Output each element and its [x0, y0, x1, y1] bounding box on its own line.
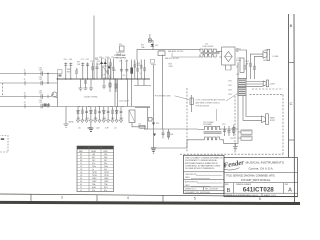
- svg-text:INSTRUMENTS AND IS SUBMITTED I: INSTRUMENTS AND IS SUBMITTED IN: [185, 162, 218, 165]
- title block bottom line: [224, 196, 298, 198]
- svg-text:2n2: 2n2: [104, 169, 107, 171]
- table column divider 2: [100, 146, 102, 192]
- sheet divider: [261, 193, 263, 197]
- svg-text:Corona, CA U.S.A.: Corona, CA U.S.A.: [249, 166, 274, 170]
- svg-text:R54: R54: [170, 134, 173, 136]
- svg-text:AND WIRE CONNECTION (J): AND WIRE CONNECTION (J): [196, 102, 221, 105]
- diode string x101.6: [100, 59, 103, 80]
- svg-text:F1: F1: [80, 184, 82, 186]
- svg-text:22u: 22u: [92, 190, 95, 192]
- svg-text:EI57: EI57: [104, 187, 108, 189]
- wire rail to terminal strip: [238, 132, 241, 138]
- svg-text:CN4: CN4: [228, 94, 232, 96]
- speaker SPKR2: [263, 80, 275, 87]
- svg-text:THIS DOCUMENT CONTAINS INFORMA: THIS DOCUMENT CONTAINS INFORMATION: [185, 157, 223, 160]
- wire vertical junction bus feed: [56, 74, 58, 107]
- svg-text:6: 6: [259, 197, 261, 201]
- svg-text:1N40: 1N40: [104, 178, 108, 180]
- small part x244.8: [244, 66, 246, 70]
- svg-text:1N53: 1N53: [104, 181, 108, 183]
- connector labels left: [228, 81, 232, 97]
- bottom border thick line: [0, 202, 300, 203]
- transistor Q51: [51, 92, 57, 98]
- wire choke to bridge: [219, 52, 222, 57]
- vertical component string x113.3: [113, 59, 115, 80]
- bottom zone tick 1: [30, 194, 32, 201]
- leader line from note to connector: [226, 93, 239, 102]
- capacitor C74 under W4: [85, 107, 88, 123]
- label R58: [169, 64, 174, 68]
- choke bottom lead: [172, 54, 200, 57]
- transformer T51 primary coil: [198, 126, 222, 129]
- dashed chassis boundary vertical x187: [186, 88, 188, 152]
- node junction W1 bus: [57, 78, 58, 79]
- line choke L51 label: [203, 44, 215, 48]
- wire bridge top to speakers: [236, 50, 247, 79]
- notes divider 4: [184, 189, 225, 191]
- capacitor C56 right of T51: [228, 126, 231, 136]
- capacitor C51 tall: [237, 58, 244, 73]
- off-sheet dashed stub upper-left: [2, 83, 4, 97]
- svg-text:.1: .1: [139, 73, 141, 75]
- wire fuse top stub: [149, 34, 151, 39]
- wire below bus right: [134, 79, 151, 86]
- resistor cluster left of caps: [58, 69, 79, 77]
- svg-text:A: A: [288, 187, 292, 193]
- stereo note text: [155, 96, 189, 100]
- svg-text:C67: C67: [86, 59, 89, 61]
- component value table: [77, 146, 114, 192]
- wire speaker1 top lead: [250, 54, 263, 79]
- zone tick right lower: [289, 139, 295, 141]
- svg-text:2W: 2W: [246, 63, 249, 65]
- svg-text:DATE: DATE: [185, 176, 190, 179]
- notes box: [184, 155, 225, 194]
- vertical component string x144.6: [144, 60, 146, 80]
- vertical bus to W4 x115: [114, 79, 116, 107]
- svg-text:TITLE: SERVICE DIAGRAM, COMBI: TITLE: SERVICE DIAGRAM, COMBINED (4/97): [226, 174, 275, 177]
- bridge bottom leads: [226, 65, 232, 70]
- vertical component string x110.6: [110, 59, 112, 80]
- diode D64 under W4: [115, 107, 118, 123]
- svg-text:LINE CHOKE: LINE CHOKE: [203, 46, 215, 48]
- capacitor C76 under W4: [106, 107, 109, 123]
- main gray bus: [57, 78, 150, 80]
- table column divider 1: [88, 146, 90, 192]
- svg-text:L1: L1: [80, 190, 82, 192]
- svg-text:R69: R69: [67, 72, 70, 74]
- logo underline swash: [225, 168, 240, 170]
- svg-text:8 OHM: 8 OHM: [272, 56, 278, 58]
- svg-text:C73: C73: [125, 61, 128, 63]
- label power supply title: [115, 54, 128, 59]
- vertical cap x87.5: [86, 59, 90, 79]
- approved by row: [185, 181, 222, 187]
- title block outer rect: [224, 158, 298, 197]
- svg-text:J1: J1: [24, 70, 26, 72]
- dashed external wire 2: [250, 94, 284, 96]
- capacitor C67 above bus: [81, 59, 85, 79]
- zone tick right upper: [289, 62, 294, 64]
- notes divider 2: [184, 179, 225, 181]
- svg-text:J-SPK: J-SPK: [270, 84, 276, 86]
- svg-text:J4: J4: [24, 102, 26, 104]
- svg-text:5K6: 5K6: [104, 157, 107, 159]
- svg-text:.01: .01: [78, 127, 81, 129]
- svg-text:47u: 47u: [92, 163, 95, 165]
- vertical cap x92.5: [91, 61, 94, 79]
- svg-text:R2: R2: [80, 157, 82, 159]
- svg-text:DATE: DATE: [185, 184, 190, 187]
- capacitor C55 right of T51: [222, 124, 226, 136]
- notes paragraph: [185, 157, 223, 170]
- svg-text:CN1: CN1: [228, 81, 232, 83]
- capacitor C54 below rail: [162, 129, 165, 139]
- svg-text:D61: D61: [77, 118, 80, 120]
- vertical component string x134: [134, 60, 136, 80]
- svg-text:XFORMER: XFORMER: [203, 124, 213, 126]
- svg-text:SPKR: SPKR: [270, 120, 276, 122]
- transformer T51 label: [203, 122, 214, 126]
- right border inner line: [288, 14, 290, 158]
- below-bus ground string x91: [89, 79, 93, 91]
- diode string x109 deep: [107, 66, 110, 69]
- wire W4 long rail: [0, 106, 150, 108]
- svg-text:P/W AMP_SMPS MODULE: P/W AMP_SMPS MODULE: [241, 179, 271, 182]
- terminal strip lower right box2: [241, 136, 252, 140]
- transformer T51 core: [204, 132, 222, 134]
- svg-text:C66: C66: [69, 59, 72, 61]
- wire lower to choke: [171, 53, 173, 57]
- svg-text:L52: L52: [138, 124, 141, 126]
- svg-text:47u: 47u: [104, 190, 107, 192]
- table subheader row: [77, 151, 114, 153]
- wire fuse to line down: [152, 41, 154, 50]
- capacitor string x126.8: [125, 60, 129, 80]
- svg-text:2K2: 2K2: [92, 160, 95, 162]
- small part box left of fuse: [119, 44, 124, 51]
- label T-ON delay: [116, 52, 125, 56]
- line choke L51 coils: [200, 49, 220, 57]
- speaker SPKR3: [262, 114, 276, 125]
- vertical bus to W4 x117.5: [117, 79, 119, 107]
- svg-text:SIZE: SIZE: [225, 184, 229, 186]
- svg-text:D71: D71: [99, 57, 102, 59]
- inductor L52: [138, 124, 146, 129]
- svg-text:.022: .022: [39, 93, 43, 95]
- size cell divider: [233, 183, 235, 194]
- svg-text:R3: R3: [80, 160, 82, 162]
- below-bus component x104 with ground: [102, 79, 106, 89]
- svg-text:47u: 47u: [123, 75, 126, 77]
- svg-text:OR USED WITHOUT PERMISSION.: OR USED WITHOUT PERMISSION.: [185, 168, 215, 170]
- tick on W4 x48: [47, 104, 49, 107]
- wire L52 to rail: [142, 127, 148, 130]
- svg-text:100u: 100u: [104, 166, 108, 168]
- wire W1 input: [0, 73, 58, 75]
- capacitor C3 on W3: [24, 90, 43, 98]
- rev cell divider: [283, 183, 285, 194]
- svg-text:C105 220uF: C105 220uF: [119, 101, 130, 103]
- diode D53 below rail: [153, 129, 156, 148]
- svg-text:TIP36: TIP36: [92, 175, 97, 177]
- svg-text:(*) PT-1 IS MOUNTED AS PORTION: (*) PT-1 IS MOUNTED AS PORTION: [196, 99, 226, 102]
- svg-text:U52(BOT VIEW): U52(BOT VIEW): [84, 97, 98, 99]
- lamp DS51: [149, 118, 154, 122]
- top rail: [137, 50, 201, 60]
- wire connector to lower speaker lead B: [246, 96, 262, 117]
- svg-text:SEE APPL NOTE 2: SEE APPL NOTE 2: [168, 50, 184, 53]
- capacitor C58 top cluster: [151, 60, 157, 65]
- svg-text:R76: R76: [97, 64, 100, 66]
- capacitor C77 under W4: [119, 107, 122, 123]
- junction dots on W4 rail: [78, 106, 123, 107]
- speaker SPKR1: [263, 49, 279, 62]
- svg-text:K51: K51: [119, 44, 122, 46]
- vertical component string x141.2: [140, 60, 142, 80]
- capacitor C65 above bus: [64, 59, 68, 79]
- svg-text:C74: C74: [86, 118, 89, 120]
- connector pin wires right: [246, 82, 263, 87]
- extra tiny labels in block: [102, 62, 141, 77]
- svg-text:1N53: 1N53: [92, 181, 96, 183]
- diode D63 under W4: [102, 107, 105, 123]
- resistor R66 under W4: [94, 107, 97, 123]
- wire vertical W1-W2 at x48: [47, 73, 48, 84]
- svg-text:TIP35: TIP35: [92, 172, 97, 174]
- svg-text:.022: .022: [39, 102, 43, 104]
- svg-text:CONFIDENCE. NO PART MAY BE COP: CONFIDENCE. NO PART MAY BE COPIED: [185, 164, 221, 167]
- svg-text:B: B: [227, 188, 231, 194]
- wire W4 to right section: [135, 107, 150, 109]
- capacitor C4 on W4: [24, 100, 43, 108]
- resistor R55: [231, 125, 235, 140]
- ground AGND: [64, 121, 75, 128]
- table row lines: [77, 155, 114, 188]
- svg-text:D63: D63: [103, 118, 106, 120]
- notes divider 1: [184, 171, 225, 173]
- small parts mid cluster: [76, 68, 78, 79]
- wire W3 input: [0, 96, 51, 98]
- svg-text:EI66: EI66: [92, 187, 96, 189]
- diode D52: [152, 65, 159, 129]
- svg-text:641ICT028: 641ICT028: [243, 187, 274, 194]
- svg-text:R70: R70: [91, 61, 94, 63]
- capacitor string x121.4: [119, 60, 123, 80]
- resistor R54 below rail: [168, 129, 174, 140]
- junction dots on bus: [65, 78, 145, 79]
- ground PGND: [233, 143, 238, 150]
- main DC vertical rail: [237, 62, 239, 143]
- svg-text:C55: C55: [222, 124, 225, 126]
- svg-text:Q53: Q53: [137, 65, 140, 67]
- below-bus component x116: [115, 79, 117, 92]
- svg-text:SEE SPL NOTE 1: SEE SPL NOTE 1: [165, 58, 179, 60]
- svg-text:CN3: CN3: [228, 90, 232, 92]
- diode D61 under W4: [76, 107, 79, 123]
- bridge labels: [236, 49, 241, 53]
- wire T51 secondary right lead: [220, 140, 238, 144]
- wire W4 branch to ground: [65, 107, 67, 125]
- svg-text:C: C: [290, 101, 293, 106]
- svg-text:CHECKED BY: CHECKED BY: [185, 174, 197, 176]
- svg-text:J2: J2: [24, 79, 26, 81]
- dashed chassis boundary horizontal y153.5: [180, 153, 283, 155]
- svg-text:C74: C74: [111, 57, 114, 59]
- resistor R65 under W4: [81, 107, 84, 123]
- relay box RL51 below rail: [158, 50, 165, 56]
- bottom row divider: [224, 192, 298, 194]
- transformer T51 secondary coil: [205, 137, 220, 140]
- wire down to rail129: [147, 108, 149, 130]
- fuse label: [141, 45, 145, 49]
- title block: [223, 158, 297, 197]
- terminal strip lower right box1: [241, 130, 252, 134]
- svg-text:APPROVED BY: APPROVED BY: [185, 181, 199, 184]
- svg-text:C1: C1: [80, 163, 82, 165]
- svg-text:C65: C65: [64, 59, 67, 61]
- label Q52 right of block: [137, 63, 140, 67]
- labels right of bridge column: [236, 58, 249, 77]
- ground main secondary: [151, 148, 156, 153]
- dashed external wire 1: [252, 88, 283, 90]
- below-bus component x110: [109, 79, 111, 92]
- resistor R67 under W4: [111, 107, 114, 123]
- svg-text:B: B: [290, 23, 293, 28]
- svg-text:C2: C2: [80, 166, 82, 168]
- connector J51 lower: [238, 88, 246, 96]
- wire T51 secondary left lead to ground: [154, 140, 205, 148]
- bottom zone tick 2: [96, 195, 98, 202]
- svg-text:AGND: AGND: [69, 121, 75, 124]
- svg-text:100W: 100W: [91, 151, 96, 153]
- svg-text:FOR STEREO USE: FOR STEREO USE: [155, 96, 172, 98]
- svg-text:D1: D1: [80, 178, 82, 180]
- svg-text:PWR SUPPLY: PWR SUPPLY: [115, 57, 128, 59]
- capacitor C66 above bus: [69, 59, 73, 79]
- svg-text:65W: 65W: [104, 151, 108, 153]
- diode D62 under W4: [89, 107, 92, 123]
- svg-text:TIP31: TIP31: [104, 172, 109, 174]
- title divider line: [224, 172, 298, 174]
- svg-text:D52: D52: [156, 123, 159, 125]
- ground deep x90.5: [88, 123, 93, 132]
- svg-text:C71: C71: [81, 59, 84, 61]
- vertical component string x107.9: [107, 59, 109, 80]
- svg-text:J3: J3: [24, 93, 26, 95]
- small part x251: [250, 63, 256, 70]
- wire T51 right top: [219, 128, 238, 130]
- table outer box: [77, 146, 114, 192]
- vertical bus to W4 x131.5: [131, 79, 133, 107]
- svg-text:MUSICAL INSTRUMENTS: MUSICAL INSTRUMENTS: [246, 160, 285, 164]
- svg-text:4: 4: [127, 196, 129, 200]
- labels deeper row: [78, 127, 117, 129]
- notes divider 3: [184, 186, 225, 188]
- table cell texts: [80, 154, 109, 192]
- svg-text:220u: 220u: [92, 166, 96, 168]
- svg-text:TIP32: TIP32: [104, 175, 109, 177]
- block left labels two rows: [97, 61, 100, 66]
- svg-text:D2: D2: [80, 181, 82, 183]
- svg-text:J-SPK: J-SPK: [263, 60, 269, 62]
- svg-text:Q1: Q1: [80, 172, 82, 174]
- drawing number divider: [224, 182, 298, 184]
- below-bus ground string x85.5: [84, 79, 88, 89]
- bottom zone tick 3: [162, 195, 164, 201]
- diode D51: [151, 44, 159, 47]
- svg-text:T1: T1: [80, 187, 82, 189]
- long vertical wire x162.5: [162, 55, 164, 130]
- svg-text:R75: R75: [97, 61, 100, 63]
- note PT-1 text: [196, 99, 226, 108]
- svg-text:R55: R55: [231, 138, 234, 140]
- below-bus ground string x80.5: [79, 79, 83, 91]
- svg-text:1N40: 1N40: [92, 178, 96, 180]
- svg-text:SCHEMATIC P/N: 0061310000: SCHEMATIC P/N: 0061310000: [185, 191, 210, 194]
- svg-text:R71: R71: [95, 58, 98, 60]
- dashed chassis boundary vertical x235: [234, 96, 236, 154]
- block top labels row: [99, 57, 114, 59]
- wire connector to lower speaker lead A: [243, 96, 262, 121]
- vertical component string x137.6: [137, 60, 139, 79]
- svg-text:PROPRIETARY TO FENDER MUSICAL: PROPRIETARY TO FENDER MUSICAL: [185, 159, 217, 162]
- second label row cluster: [77, 62, 81, 66]
- diode string x105.2: [104, 59, 107, 80]
- connector J51 upper: [238, 79, 246, 87]
- svg-text:33u: 33u: [104, 163, 107, 165]
- svg-text:.01: .01: [114, 127, 117, 129]
- drawn no row: [185, 187, 219, 191]
- feedback wire vertical from top: [93, 16, 95, 80]
- svg-text:3: 3: [61, 195, 63, 199]
- capacitor C75 under W4: [98, 107, 101, 123]
- svg-text:4K7: 4K7: [92, 157, 95, 159]
- bridge rectifier box BR51: [222, 47, 235, 65]
- svg-text:.022: .022: [39, 70, 43, 72]
- svg-text:CN2: CN2: [228, 85, 232, 87]
- vertical cap x97: [95, 59, 99, 79]
- svg-text:R1: R1: [80, 154, 82, 156]
- svg-text:C3: C3: [80, 169, 82, 171]
- svg-text:D64: D64: [120, 118, 123, 120]
- svg-text:1n: 1n: [92, 169, 94, 171]
- svg-text:D51: D51: [155, 45, 158, 47]
- svg-text:D72: D72: [106, 57, 109, 59]
- dashed chassis boundary vertical x283: [282, 95, 284, 155]
- note leader to T51: [216, 109, 218, 121]
- capacitor C2 on W2: [24, 77, 43, 85]
- svg-text:Q2: Q2: [80, 175, 82, 177]
- relay RY51 main box: [103, 66, 112, 78]
- svg-text:DELAY: DELAY: [116, 53, 123, 56]
- labels row above block: [95, 58, 110, 60]
- svg-text:.022: .022: [96, 127, 100, 129]
- jumper component on vertical: [190, 95, 193, 112]
- checked by row: [185, 174, 222, 179]
- vertical bus to W4 x127.5: [127, 79, 129, 107]
- bottom border thin line: [0, 194, 298, 197]
- svg-text:R67: R67: [111, 118, 114, 120]
- tick on W3 x48: [47, 95, 49, 98]
- off-sheet dashed box lower-left: [0, 136, 8, 153]
- table header dark band: [77, 146, 114, 149]
- labels under W4 row: [77, 118, 123, 120]
- svg-text:R66: R66: [94, 118, 97, 120]
- fuse F51: [148, 39, 151, 42]
- wire box to L52: [132, 123, 138, 127]
- capacitor C69 between W3 W4: [44, 103, 51, 107]
